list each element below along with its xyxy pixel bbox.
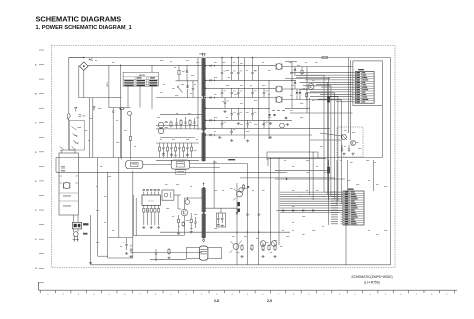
- wire rail y170.3: [275, 169, 330, 171]
- capacitor C825: [123, 238, 128, 250]
- wire vert x113.2: [112, 116, 114, 158]
- resistor R825: [322, 56, 328, 58]
- resistor R830: [167, 248, 170, 259]
- ground E1: [75, 107, 77, 111]
- resistor R827: [182, 221, 184, 227]
- wire hor y61.6: [285, 61, 297, 63]
- resistor R828: [190, 213, 192, 230]
- left ruler ticks: [39, 50, 44, 283]
- labels CN802 pins: [331, 192, 338, 225]
- wire vert x390.6: [390, 58, 392, 265]
- primary RC row: [158, 143, 192, 158]
- ground T802: [202, 240, 205, 242]
- IC801 pins: [143, 189, 160, 207]
- page number 2-9: [267, 299, 272, 303]
- transistor Q805: [308, 84, 314, 90]
- diode column D810: [294, 80, 297, 89]
- photocoupler PC803: [158, 122, 168, 134]
- diodes D803-D808: [210, 65, 216, 137]
- wire C810 loop: [186, 248, 221, 259]
- wire bundle right: [296, 75, 341, 203]
- wires secondary rails: [205, 65, 330, 135]
- resistor R810: [180, 119, 182, 129]
- transistor Q802 MOSFET: [181, 197, 188, 235]
- wire top primary bus: [88, 64, 202, 66]
- capacitor C821: [79, 115, 86, 118]
- wire top bus y57.5 left: [69, 57, 202, 59]
- wire module bottom stubs: [73, 215, 78, 222]
- zener D817: [238, 209, 240, 212]
- svg-text:+: +: [249, 214, 250, 216]
- capacitor C824: [61, 171, 65, 173]
- transformer T801: [202, 58, 206, 162]
- diode D811b: [296, 89, 299, 100]
- wires below table: [128, 86, 152, 109]
- wire vert x373.7: [373, 160, 375, 191]
- label module1: [59, 193, 78, 196]
- transistor Q801: [185, 200, 190, 205]
- label box below RY802: [176, 170, 186, 175]
- transistor Q807: [260, 241, 266, 247]
- wire hor y256.2: [98, 255, 108, 257]
- wire vert x382.4: [381, 106, 383, 158]
- svg-text:SCHEMATIC DIAGRAMS: SCHEMATIC DIAGRAMS: [36, 15, 122, 24]
- transistor Q806: [350, 140, 355, 145]
- resistor R826: [177, 215, 179, 232]
- table: fuse ratings: [123, 72, 158, 86]
- dashed border: [52, 46, 396, 268]
- wire vert x348.5: [349, 58, 351, 141]
- wire primary hor y128.9: [156, 128, 202, 130]
- wire vert x130.5: [130, 115, 132, 134]
- wire gate: [174, 195, 181, 209]
- arrow T801 top-left: [202, 53, 204, 57]
- resistor R824: [305, 92, 307, 98]
- wire rail y259.3: [150, 258, 186, 260]
- photocoupler PC801: [162, 190, 174, 200]
- electrolytic C810: [199, 246, 208, 260]
- wire vert x247.5: [246, 164, 248, 265]
- snubber loop: [216, 213, 225, 227]
- svg-text:▭▭▭: ▭▭▭: [148, 201, 154, 203]
- ground G4: [342, 153, 345, 156]
- wire relay to rail: [143, 164, 248, 168]
- ground G8: [217, 224, 224, 228]
- resistor row R816-R822: [241, 244, 276, 251]
- wire vert x132.8: [132, 171, 134, 258]
- transistor Q808: [271, 241, 277, 247]
- svg-text:2-8: 2-8: [214, 299, 219, 303]
- wire hor y235.6: [133, 235, 184, 237]
- line filter module outline: [59, 153, 78, 215]
- capacitor C812: [348, 145, 350, 152]
- junction fuse top: [83, 57, 84, 58]
- connector CN802: [341, 191, 365, 225]
- ground E2: [93, 107, 95, 111]
- resistor R808 diag: [177, 85, 183, 93]
- diode D803p: [186, 81, 189, 98]
- wire vert x328.4: [327, 160, 329, 200]
- wire L801 out: [282, 66, 353, 68]
- svg-text:MA TM: MA TM: [139, 74, 145, 77]
- wire primary hor y80.8: [176, 80, 198, 82]
- arrow T801 top-right: [204, 53, 206, 57]
- capacitor C811: [341, 145, 343, 152]
- wire IC801 bottom rail: [131, 252, 202, 254]
- wire rail y179: [275, 178, 345, 180]
- label IC801: [148, 201, 154, 203]
- capacitor C828: [221, 213, 223, 223]
- resistor network R811-R815: [143, 207, 160, 225]
- label module2: [59, 201, 78, 206]
- inductor L801: [276, 63, 282, 70]
- svg-text:24V: 24V: [213, 162, 217, 164]
- capacitor C829: [246, 214, 250, 216]
- wire hor y152: [267, 152, 318, 160]
- transistor Q804: [230, 241, 243, 254]
- svg-text:T801: T801: [199, 54, 205, 56]
- bottom ruler labels: [47, 294, 448, 296]
- zener D818: [327, 96, 329, 103]
- transistor Q803: [233, 188, 246, 201]
- label cluster vals: [74, 127, 81, 143]
- wire vert x121.3: [120, 109, 122, 160]
- capacitor C804: [192, 81, 194, 98]
- capacitor C826: [130, 245, 132, 254]
- capacitor value labels: [223, 71, 268, 130]
- wire top secondary bus: [205, 57, 390, 59]
- junction dots y232: [236, 232, 259, 233]
- capacitor C807: [193, 118, 195, 129]
- resistor R809: [170, 121, 172, 128]
- svg-text:(LH-R756): (LH-R756): [364, 281, 379, 285]
- resistor R807: [178, 65, 180, 81]
- wire vert x270.3: [269, 158, 271, 246]
- diode D820: [236, 212, 239, 214]
- wire drain: [185, 190, 203, 203]
- capacitor C827: [217, 213, 219, 223]
- wire vert x238.7: [236, 183, 238, 265]
- ground G2: [269, 122, 272, 125]
- IC801 box: [142, 195, 160, 205]
- inductor L802: [276, 86, 282, 92]
- capacitor C831: [154, 249, 157, 261]
- svg-text:+: +: [260, 214, 261, 216]
- footer text (LH-R756): [364, 281, 379, 285]
- wire bus stubs: [221, 57, 253, 66]
- wire L802 out: [282, 88, 307, 90]
- svg-text:2-9: 2-9: [267, 299, 272, 303]
- wire vert x214.1: [213, 160, 215, 208]
- label AC: [89, 58, 94, 62]
- wire vert x292: [291, 62, 292, 109]
- diode column D811: [299, 89, 302, 100]
- wire rail y157.5: [56, 157, 382, 159]
- wire rail jog: [67, 113, 69, 120]
- wire vert x97.6: [97, 158, 99, 257]
- wire primary hor y114.7: [160, 114, 202, 116]
- capacitors secondary bank: [221, 66, 265, 135]
- wire hor y237.6: [108, 237, 133, 239]
- wire primary vert x198: [197, 58, 199, 131]
- resistor R811b: [189, 119, 191, 129]
- ground G7: [177, 231, 193, 235]
- label CN801: [358, 69, 364, 70]
- dashed box sub-circuit: [337, 127, 363, 157]
- svg-text:C821: C821: [82, 116, 86, 118]
- fuse F801: [80, 62, 89, 71]
- resistor R832 diag: [72, 147, 76, 150]
- value label specks: [60, 60, 387, 253]
- capacitor C830: [258, 214, 262, 216]
- junction dot: [120, 65, 121, 66]
- resistor R802 diag: [72, 127, 78, 138]
- wire hor y113: [290, 112, 353, 114]
- wire vert x328.6: [328, 77, 330, 225]
- label P801: [83, 223, 89, 225]
- wire verts x89.7 x92.8: [90, 98, 93, 158]
- wire vert x255.6: [257, 150, 259, 265]
- inductor L804: [63, 182, 70, 189]
- diodes D812-D815: [276, 209, 343, 211]
- ground row: [240, 255, 276, 258]
- resistor R805: [129, 135, 131, 160]
- ground G3: [286, 123, 289, 126]
- label 24V: [213, 159, 235, 164]
- page number 2-8: [214, 299, 219, 303]
- wire vert x337: [336, 160, 338, 205]
- wire loop corner right: [109, 98, 131, 108]
- wire hor y232.2: [160, 231, 290, 233]
- zener cluster: [268, 114, 287, 128]
- footer text SCHEMATIC(SMPS+WIDE): [351, 275, 392, 279]
- wires into dashed box: [310, 133, 342, 140]
- left ruler labels: [35, 63, 37, 270]
- wire left edge verticals: [55, 158, 57, 173]
- ground G5: [351, 153, 354, 156]
- bottom ruler: [39, 282, 458, 293]
- wire vert x307: [306, 67, 307, 114]
- ground row IC: [142, 226, 160, 229]
- resistor R831 diag: [60, 147, 64, 150]
- zener D819: [327, 167, 329, 174]
- wire vertical drop x152: [151, 65, 153, 72]
- wire hor y158.3: [268, 158, 326, 166]
- wire vert x118.8: [118, 158, 120, 238]
- label socket: [83, 233, 88, 235]
- grounds secondary: [218, 110, 272, 142]
- svg-text:SCHEMATIC(SMPS+WIDE): SCHEMATIC(SMPS+WIDE): [351, 275, 392, 279]
- inductor L803: [276, 96, 282, 102]
- diode D802: [186, 65, 189, 81]
- label CN802: [348, 189, 354, 190]
- label T801: [199, 54, 205, 56]
- wires to CN802: [280, 192, 341, 212]
- capacitor C808: [194, 217, 196, 228]
- capacitor C806: [184, 117, 186, 129]
- connector CN801 outer box: [353, 61, 383, 106]
- wires to CN801: [290, 73, 353, 102]
- ground row primary: [162, 153, 189, 157]
- wire input loop: [79, 65, 109, 97]
- wire vert x313.1: [312, 152, 314, 200]
- wire vertical drop x120.7: [120, 65, 122, 158]
- ground G6: [125, 252, 133, 258]
- wire hor y177.9: [240, 177, 335, 179]
- resistor R823: [301, 67, 303, 76]
- connector CN801: [353, 72, 375, 104]
- wire hor y258: [108, 257, 133, 259]
- wires secondary verticals: [245, 58, 270, 150]
- wire vert x90.6: [89, 215, 92, 265]
- AC socket: [73, 229, 78, 236]
- label cluster 4.7k: [272, 109, 285, 112]
- resistor R804 h: [119, 108, 125, 110]
- wire primary hor y125.5: [156, 125, 198, 127]
- wire primary rail y137.5: [160, 137, 195, 139]
- junction J1: [286, 178, 287, 179]
- surge cluster box: [69, 121, 84, 151]
- AC plug P801: [72, 222, 81, 229]
- relay RY802: [171, 160, 190, 169]
- relay RY801: [126, 161, 143, 169]
- AC prongs: [73, 236, 80, 241]
- subtitle: 1. POWER SCHEMATIC DIAGRAM_1: [36, 25, 132, 31]
- wire vert x107.7: [107, 172, 109, 258]
- title: SCHEMATIC DIAGRAMS: [36, 15, 122, 24]
- wire primary rail y143: [156, 142, 199, 144]
- zener D816: [238, 202, 240, 206]
- label F801 value: [106, 82, 108, 88]
- wire fuse to loop: [83, 71, 85, 98]
- wire CN802 bottom: [345, 225, 347, 265]
- wire hor y78.5: [285, 78, 330, 80]
- transformer T802: [202, 187, 206, 239]
- wire primary hor y97.6: [156, 97, 202, 99]
- capacitor C805: [175, 118, 177, 129]
- arrow T802 top: [203, 182, 205, 186]
- wire IC801 left: [133, 195, 136, 236]
- wire vert x347.5: [347, 160, 349, 191]
- wire vert x309.5: [309, 98, 311, 195]
- wire hor y208.2: [205, 208, 237, 213]
- wire hor y108.3: [285, 107, 310, 109]
- thermistor TH801: [128, 111, 134, 115]
- resistor R803 diag: [73, 141, 78, 145]
- wire rail y172.3: [56, 171, 286, 173]
- capacitor C822: [112, 108, 114, 116]
- wire bottom rail y264.8: [91, 264, 391, 266]
- svg-text:1. POWER SCHEMATIC DIAGRAM_1: 1. POWER SCHEMATIC DIAGRAM_1: [36, 25, 132, 31]
- capacitor C823: [61, 166, 68, 169]
- wire AC input left rail: [69, 58, 84, 151]
- wire L803 out: [282, 99, 320, 101]
- regulator cluster: [239, 184, 250, 192]
- diode column D809: [294, 67, 297, 77]
- wire y157.5 to relay: [156, 159, 199, 161]
- photocoupler PC802: [341, 134, 347, 140]
- wire vert x279: [278, 158, 280, 246]
- wire module stubs: [62, 150, 75, 153]
